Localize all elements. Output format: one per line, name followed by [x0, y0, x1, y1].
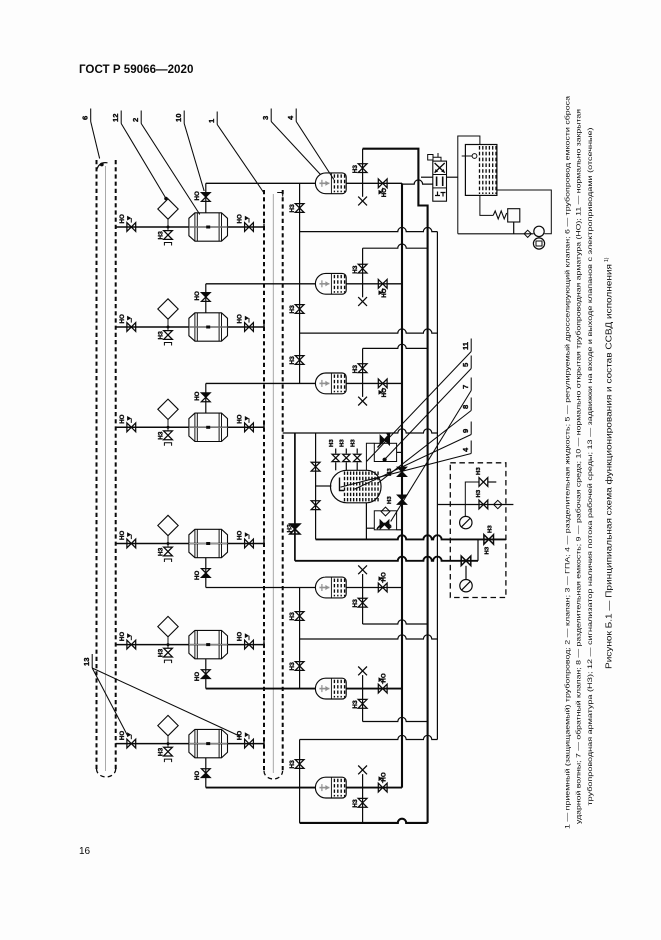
- valve NZ panel d bold: [461, 556, 466, 566]
- valve 2 SSVD vessel unit 3: [189, 413, 228, 441]
- valve 11 NZ tank 3: [358, 364, 367, 368]
- reservoir float: [472, 154, 477, 159]
- motor circle: [533, 238, 544, 249]
- svg-text:НО: НО: [381, 188, 388, 197]
- svg-text:НЗ: НЗ: [289, 612, 296, 620]
- relief valve 5 box: [508, 209, 520, 222]
- svg-text:Рисунок Б.1 — Принципиальная с: Рисунок Б.1 — Принципиальная схема функц…: [605, 264, 614, 669]
- valve 10 NO left of unit 3: [127, 423, 131, 432]
- wire unit row 5 main line: [116, 644, 264, 646]
- valve NZ: [295, 204, 304, 208]
- svg-text:НЗ: НЗ: [352, 799, 359, 807]
- valve NZ: [295, 356, 304, 360]
- drain closed end: [164, 759, 171, 762]
- wire tank row 4 feed line: [206, 587, 316, 589]
- wire: [345, 449, 347, 454]
- wire stub header to collector: [363, 717, 428, 721]
- svg-text:НО: НО: [119, 731, 126, 740]
- svg-text:НЗ: НЗ: [352, 599, 359, 607]
- control valve X arrows: [435, 163, 445, 173]
- wire unit row 5 end tick: [263, 641, 265, 648]
- wire stub header to collector: [363, 244, 428, 248]
- valve 2 SSVD vessel unit 5: [189, 630, 228, 658]
- svg-text:НЗ: НЗ: [287, 524, 294, 532]
- pressure gauge 1: [460, 516, 472, 528]
- pipe 6 centre line: [105, 166, 107, 771]
- svg-text:НО: НО: [237, 314, 244, 323]
- svg-text:НО: НО: [119, 632, 126, 641]
- valve 7 check lower: [311, 501, 320, 505]
- accumulator 3 tank row 1: [315, 173, 346, 194]
- drain closed end: [164, 443, 171, 446]
- node: [167, 226, 170, 229]
- bus B bold loop collector: [363, 149, 428, 823]
- svg-text:НЗ: НЗ: [289, 760, 296, 768]
- valve 10 NO tank 1: [378, 179, 382, 188]
- valve 10 NO tank 6: [378, 783, 382, 792]
- valve 11 NZ tank 4: [358, 598, 367, 602]
- svg-text:НО: НО: [237, 632, 244, 641]
- svg-text:НЗ: НЗ: [387, 496, 393, 504]
- wire NZ stub: [362, 689, 364, 722]
- wire unit 5 riser down: [205, 659, 207, 689]
- valve 10 NO left of unit 4: [127, 539, 131, 548]
- wire: [488, 481, 496, 483]
- svg-text:НЗ: НЗ: [352, 165, 359, 173]
- check arrow: [377, 523, 391, 529]
- wire vent stub: [362, 383, 364, 397]
- svg-text:НЗ: НЗ: [158, 231, 165, 239]
- wire to check box: [366, 527, 374, 529]
- vent closed x: [358, 667, 367, 676]
- wire unit row 2 end tick: [263, 324, 265, 331]
- flag: [382, 388, 384, 393]
- valve NZ drain unit 3: [164, 431, 173, 435]
- wire: [356, 449, 358, 454]
- svg-text:6: 6: [81, 116, 90, 120]
- valve NZ: [295, 305, 304, 309]
- svg-text:НЗ: НЗ: [352, 365, 359, 373]
- svg-text:НО: НО: [194, 672, 201, 681]
- vent closed x: [358, 397, 367, 406]
- svg-text:13: 13: [82, 658, 91, 666]
- svg-text:НЗ: НЗ: [158, 331, 165, 339]
- separator hatch: [344, 472, 346, 502]
- svg-text:НЗ: НЗ: [476, 489, 482, 497]
- throttle loop box: [374, 443, 396, 461]
- wire tank row 3 outlet: [346, 382, 402, 384]
- flag: [130, 218, 132, 223]
- vessel 8 separation vessel: [330, 470, 381, 503]
- wire vent stub: [362, 574, 364, 588]
- accumulator 3 tank row 6: [315, 777, 346, 798]
- flow signaller 12 diamond unit 6: [158, 715, 178, 735]
- wire vent stub: [362, 774, 364, 788]
- svg-text:10: 10: [174, 114, 183, 122]
- valve 11 NZ on bus upper: [397, 467, 406, 472]
- node: [167, 742, 170, 745]
- flow signaller 12 diamond unit 1: [158, 199, 178, 219]
- node throttle out: [383, 458, 387, 462]
- valve NZ: [295, 760, 304, 764]
- control valve 13 directional block: [433, 161, 447, 201]
- wire box stub: [477, 539, 479, 560]
- svg-text:НО: НО: [381, 673, 388, 682]
- svg-text:НЗ: НЗ: [352, 265, 359, 273]
- flag: [248, 735, 250, 740]
- reservoir hatch: [479, 146, 481, 194]
- svg-text:НЗ: НЗ: [340, 439, 346, 447]
- wire unit row 1 main line: [116, 226, 264, 228]
- valve 10 NO right of unit 4: [245, 539, 249, 548]
- valve NZ panel b: [479, 500, 483, 509]
- svg-text:НЗ: НЗ: [476, 467, 482, 475]
- valve NZ separator top b: [343, 454, 350, 458]
- valve 10 NO tank 2: [378, 279, 382, 288]
- svg-text:НО: НО: [194, 771, 201, 780]
- valve NZ drain unit 6: [164, 747, 173, 751]
- flag: [130, 318, 132, 323]
- valve 11 NZ tank 6: [358, 798, 367, 802]
- svg-text:2: 2: [131, 118, 140, 122]
- valve 10 NO tank 4: [378, 583, 382, 592]
- valve 13 NZ bold: [290, 524, 300, 529]
- flag: [248, 318, 250, 323]
- wire separator left port: [316, 485, 332, 487]
- wire pump suction: [458, 233, 534, 235]
- svg-text:НЗ: НЗ: [352, 700, 359, 708]
- valve NZ panel c bold: [484, 535, 489, 545]
- valve NO riser unit 4: [201, 569, 210, 573]
- flag: [130, 535, 132, 540]
- svg-text:НО: НО: [381, 388, 388, 397]
- wire loop to bus: [397, 451, 402, 453]
- svg-text:НЗ: НЗ: [289, 356, 296, 364]
- svg-text:ударной волны; 7 — обратный кл: ударной волны; 7 — обратный клапан; 8 — …: [575, 108, 583, 824]
- pipe 1 centre line: [272, 194, 274, 773]
- control valve T ports: [435, 192, 446, 197]
- svg-text:НЗ: НЗ: [329, 439, 335, 447]
- wire unit 2 riser up: [205, 284, 207, 313]
- wire diamond drop: [167, 219, 169, 230]
- vent closed x: [358, 197, 367, 206]
- svg-text:НО: НО: [381, 572, 388, 581]
- svg-text:8: 8: [461, 405, 470, 409]
- wire tank row 5 feed line: [206, 688, 316, 690]
- wire tank row 1 outlet: [346, 182, 402, 184]
- wire tank row 6 outlet: [346, 787, 402, 789]
- pressure gauge 2: [460, 580, 472, 592]
- flag: [382, 288, 384, 293]
- pipe 1 right dashed wall: [282, 190, 284, 773]
- wire tank row 2 outlet: [346, 283, 402, 285]
- vent closed x: [358, 766, 367, 775]
- drain closed end: [164, 243, 171, 246]
- gauge panel dashed box: [450, 463, 506, 598]
- pipe 6 relief-vessel pipeline left dashed wall: [96, 160, 98, 771]
- wire branch vertical to gauge line: [294, 433, 296, 561]
- wire unit row 4 end tick: [263, 540, 265, 547]
- flag: [382, 579, 384, 584]
- node pipe6 top: [100, 163, 104, 167]
- valve 10 NO tank 5: [378, 684, 382, 693]
- valve 7 check in box: [380, 520, 384, 529]
- wire NZ stub: [362, 248, 364, 284]
- wire vent stub: [362, 284, 364, 298]
- svg-text:НЗ: НЗ: [351, 439, 357, 447]
- wire separator to throttle loop: [366, 443, 374, 470]
- svg-text:9: 9: [461, 429, 470, 433]
- valve NZ on bus lower: [397, 495, 406, 500]
- flow signaller 12 diamond unit 5: [158, 616, 178, 636]
- wire NZ stub: [362, 348, 364, 383]
- node: [167, 326, 170, 329]
- svg-text:ГОСТ Р 59066—2020: ГОСТ Р 59066—2020: [79, 63, 193, 76]
- valve 10 NO left of unit 1: [127, 223, 131, 232]
- svg-text:НЗ: НЗ: [488, 525, 494, 533]
- svg-text:НО: НО: [194, 571, 201, 580]
- valve NO riser unit 3: [201, 393, 210, 397]
- wire: [345, 462, 347, 470]
- valve NO riser unit 1: [201, 193, 210, 197]
- flow signaller 12 diamond unit 4: [158, 515, 178, 535]
- wire unit row 3 main line: [116, 426, 264, 428]
- wire relief drop: [480, 195, 493, 215]
- svg-text:НО: НО: [119, 214, 126, 223]
- wire unit 1 riser up: [205, 183, 207, 213]
- wire valve right port: [447, 176, 458, 178]
- wire equalizing tee 5: [300, 735, 438, 739]
- bus A bold collector: [401, 183, 403, 787]
- wire diamond drop: [167, 319, 169, 330]
- valve NO riser unit 2: [201, 293, 210, 297]
- reservoir 4 hydraulic tank: [465, 145, 497, 196]
- valve 7 check upper: [311, 462, 320, 466]
- valve 10 NO tank 3: [378, 379, 382, 388]
- svg-text:НО: НО: [237, 214, 244, 223]
- pipe 6 bottom cap: [97, 769, 116, 777]
- accumulator 3 tank row 3: [315, 373, 346, 394]
- valve NZ drain unit 1: [164, 231, 173, 235]
- check valve box: [374, 511, 396, 530]
- flag: [382, 680, 384, 685]
- wire gauge line bold: [295, 557, 478, 561]
- svg-text:7: 7: [461, 385, 470, 389]
- svg-text:НЗ: НЗ: [158, 431, 165, 439]
- wire left equalizing vertical rows1-3: [299, 183, 301, 383]
- svg-text:НО: НО: [381, 772, 388, 781]
- wire unit 6 riser down: [205, 758, 207, 788]
- svg-text:12: 12: [111, 114, 120, 122]
- bus C thin gauge collector: [436, 232, 438, 740]
- flag: [382, 779, 384, 784]
- svg-text:НЗ: НЗ: [289, 204, 296, 212]
- wire tank row 2 feed line: [206, 283, 316, 285]
- panel diamond: [494, 500, 502, 508]
- svg-text:НО: НО: [194, 291, 201, 300]
- valve NO riser unit 5: [201, 670, 210, 674]
- wire check box out: [397, 529, 402, 531]
- wire separator drain bold: [316, 535, 506, 539]
- valve NZ separator top c: [354, 454, 361, 458]
- valve 2 SSVD vessel unit 6: [189, 729, 228, 757]
- svg-text:НО: НО: [237, 414, 244, 423]
- wire port line upper: [421, 176, 433, 178]
- valve 10 NO right of unit 6: [245, 739, 249, 748]
- flag: [130, 636, 132, 641]
- valve NZ drain unit 5: [164, 648, 173, 652]
- drain closed end: [164, 559, 171, 562]
- wire NZ stub: [362, 149, 364, 184]
- wire vent stub: [362, 183, 364, 197]
- svg-text:3: 3: [261, 116, 270, 120]
- flow signaller 12 diamond unit 2: [158, 299, 178, 319]
- wire second vertical to separator: [315, 433, 317, 539]
- throttle arrow: [378, 434, 391, 448]
- valve 10 NO right of unit 2: [245, 323, 249, 332]
- svg-text:НО: НО: [119, 531, 126, 540]
- valve 11 NZ tank 1: [358, 164, 367, 168]
- wire unit row 4 main line: [116, 543, 264, 545]
- pipe 6 right dashed wall: [115, 160, 117, 771]
- svg-text:НО: НО: [237, 531, 244, 540]
- wire diamond drop: [167, 637, 169, 648]
- svg-text:1 — приемный (защищаемый) труб: 1 — приемный (защищаемый) трубопровод; 2…: [564, 96, 572, 829]
- wire diamond drop: [167, 536, 169, 547]
- valve 10 NO left of unit 5: [127, 640, 131, 649]
- valve NZ: [295, 662, 304, 666]
- svg-text:11: 11: [461, 341, 470, 350]
- valve 11 NZ tank 2: [358, 264, 367, 268]
- pipe 1 top tick: [277, 193, 283, 197]
- wire unit row 3 end tick: [263, 424, 265, 431]
- valve 2 SSVD vessel unit 2: [189, 313, 228, 341]
- valve NZ drain unit 2: [164, 331, 173, 335]
- wire stub header to collector: [363, 344, 428, 348]
- separator level tick: [340, 478, 345, 491]
- wire unit row 6 main line: [116, 743, 264, 745]
- wire equalizing tee 1: [300, 227, 438, 231]
- wire separator feed tee from pipeline: [283, 429, 438, 433]
- flag: [248, 636, 250, 641]
- wire tank row 3 feed line: [206, 382, 316, 384]
- valve 2 SSVD vessel unit 1: [189, 213, 228, 241]
- valve 10 NO left of unit 2: [127, 323, 131, 332]
- wire: [335, 449, 337, 454]
- wire reservoir to pump: [497, 190, 551, 234]
- wire diamond drop: [167, 420, 169, 431]
- flag: [382, 188, 384, 193]
- wire equalizing tee 2: [300, 329, 438, 333]
- svg-text:1): 1): [604, 257, 610, 262]
- wire tank row 1 feed line: [206, 182, 316, 184]
- svg-text:НО: НО: [194, 191, 201, 200]
- wire gauge branch a: [465, 482, 479, 516]
- accumulator 3 tank row 5: [315, 678, 346, 699]
- wire left equalizing vertical rows4-5: [299, 588, 301, 689]
- svg-text:НЗ: НЗ: [485, 546, 491, 554]
- wire separator bottom: [365, 503, 367, 540]
- valve NO riser unit 6: [201, 769, 210, 773]
- wire stub header bottom bold: [300, 819, 428, 823]
- flag: [248, 218, 250, 223]
- wire vent stub: [362, 675, 364, 689]
- control valve centre ports: [436, 177, 438, 187]
- valve NZ drain unit 4: [164, 547, 173, 551]
- wire valve to reservoir loop: [458, 136, 480, 234]
- flag: [248, 418, 250, 423]
- pump circle: [534, 226, 544, 236]
- svg-text:НО: НО: [119, 314, 126, 323]
- wire tank row 5 outlet: [346, 688, 402, 690]
- svg-text:НО: НО: [194, 391, 201, 400]
- vent closed x: [358, 297, 367, 306]
- pipe 6 top hook: [97, 163, 108, 171]
- wire stub header to collector: [363, 620, 428, 624]
- valve NZ separator top a: [332, 454, 339, 458]
- flag: [130, 418, 132, 423]
- svg-text:16: 16: [79, 846, 91, 857]
- valve 10 NO right of unit 5: [245, 640, 249, 649]
- wire tank row 4 outlet: [346, 587, 402, 589]
- svg-text:НО: НО: [119, 414, 126, 423]
- wire: [335, 462, 337, 470]
- spring: [493, 211, 507, 219]
- wire unit 3 riser up: [205, 383, 207, 413]
- wire bottom drop: [299, 788, 301, 823]
- pipe 1 protected pipeline left dashed wall: [263, 190, 265, 773]
- pipe 1 bottom cap: [264, 771, 283, 779]
- wire tank row 6 feed line: [206, 787, 316, 789]
- wire gauge branch b: [437, 504, 513, 506]
- valve 11 NZ tank 5: [358, 699, 367, 703]
- svg-text:НЗ: НЗ: [158, 748, 165, 756]
- wire gauge2 stub: [465, 566, 467, 580]
- valve 10 NO right of unit 1: [245, 223, 249, 232]
- valve 5 regulated throttle: [380, 436, 385, 445]
- wire relief to pump line: [513, 222, 515, 234]
- svg-text:НЗ: НЗ: [158, 548, 165, 556]
- wire unit row 6 end tick: [263, 740, 265, 747]
- node: [167, 643, 170, 646]
- node: [167, 426, 170, 429]
- svg-text:НЗ: НЗ: [289, 662, 296, 670]
- flag: [248, 535, 250, 540]
- wire NZ stub: [362, 588, 364, 625]
- wire unit 4 riser down: [205, 558, 207, 588]
- valve NZ: [295, 612, 304, 616]
- wire unit row 1 end tick: [263, 224, 265, 231]
- check box diamond: [381, 507, 390, 516]
- flag: [130, 735, 132, 740]
- wire diamond drop: [167, 736, 169, 747]
- wire equalizing tee 4: [300, 635, 438, 639]
- svg-text:НЗ: НЗ: [289, 305, 296, 313]
- svg-text:НО: НО: [381, 288, 388, 297]
- wire NZ stub: [362, 788, 364, 823]
- accumulator 3 tank row 2: [315, 273, 346, 294]
- wire unit row 2 main line: [116, 326, 264, 328]
- pump diamond: [524, 230, 531, 237]
- svg-text:НЗ: НЗ: [158, 649, 165, 657]
- valve 10 NO right of unit 3: [245, 423, 249, 432]
- solenoid: [428, 155, 433, 161]
- accumulator 3 tank row 4: [315, 577, 346, 598]
- valve 10 NO left of unit 6: [127, 739, 131, 748]
- drain closed end: [164, 343, 171, 346]
- valve NZ panel a: [479, 478, 483, 487]
- wire: [356, 462, 358, 470]
